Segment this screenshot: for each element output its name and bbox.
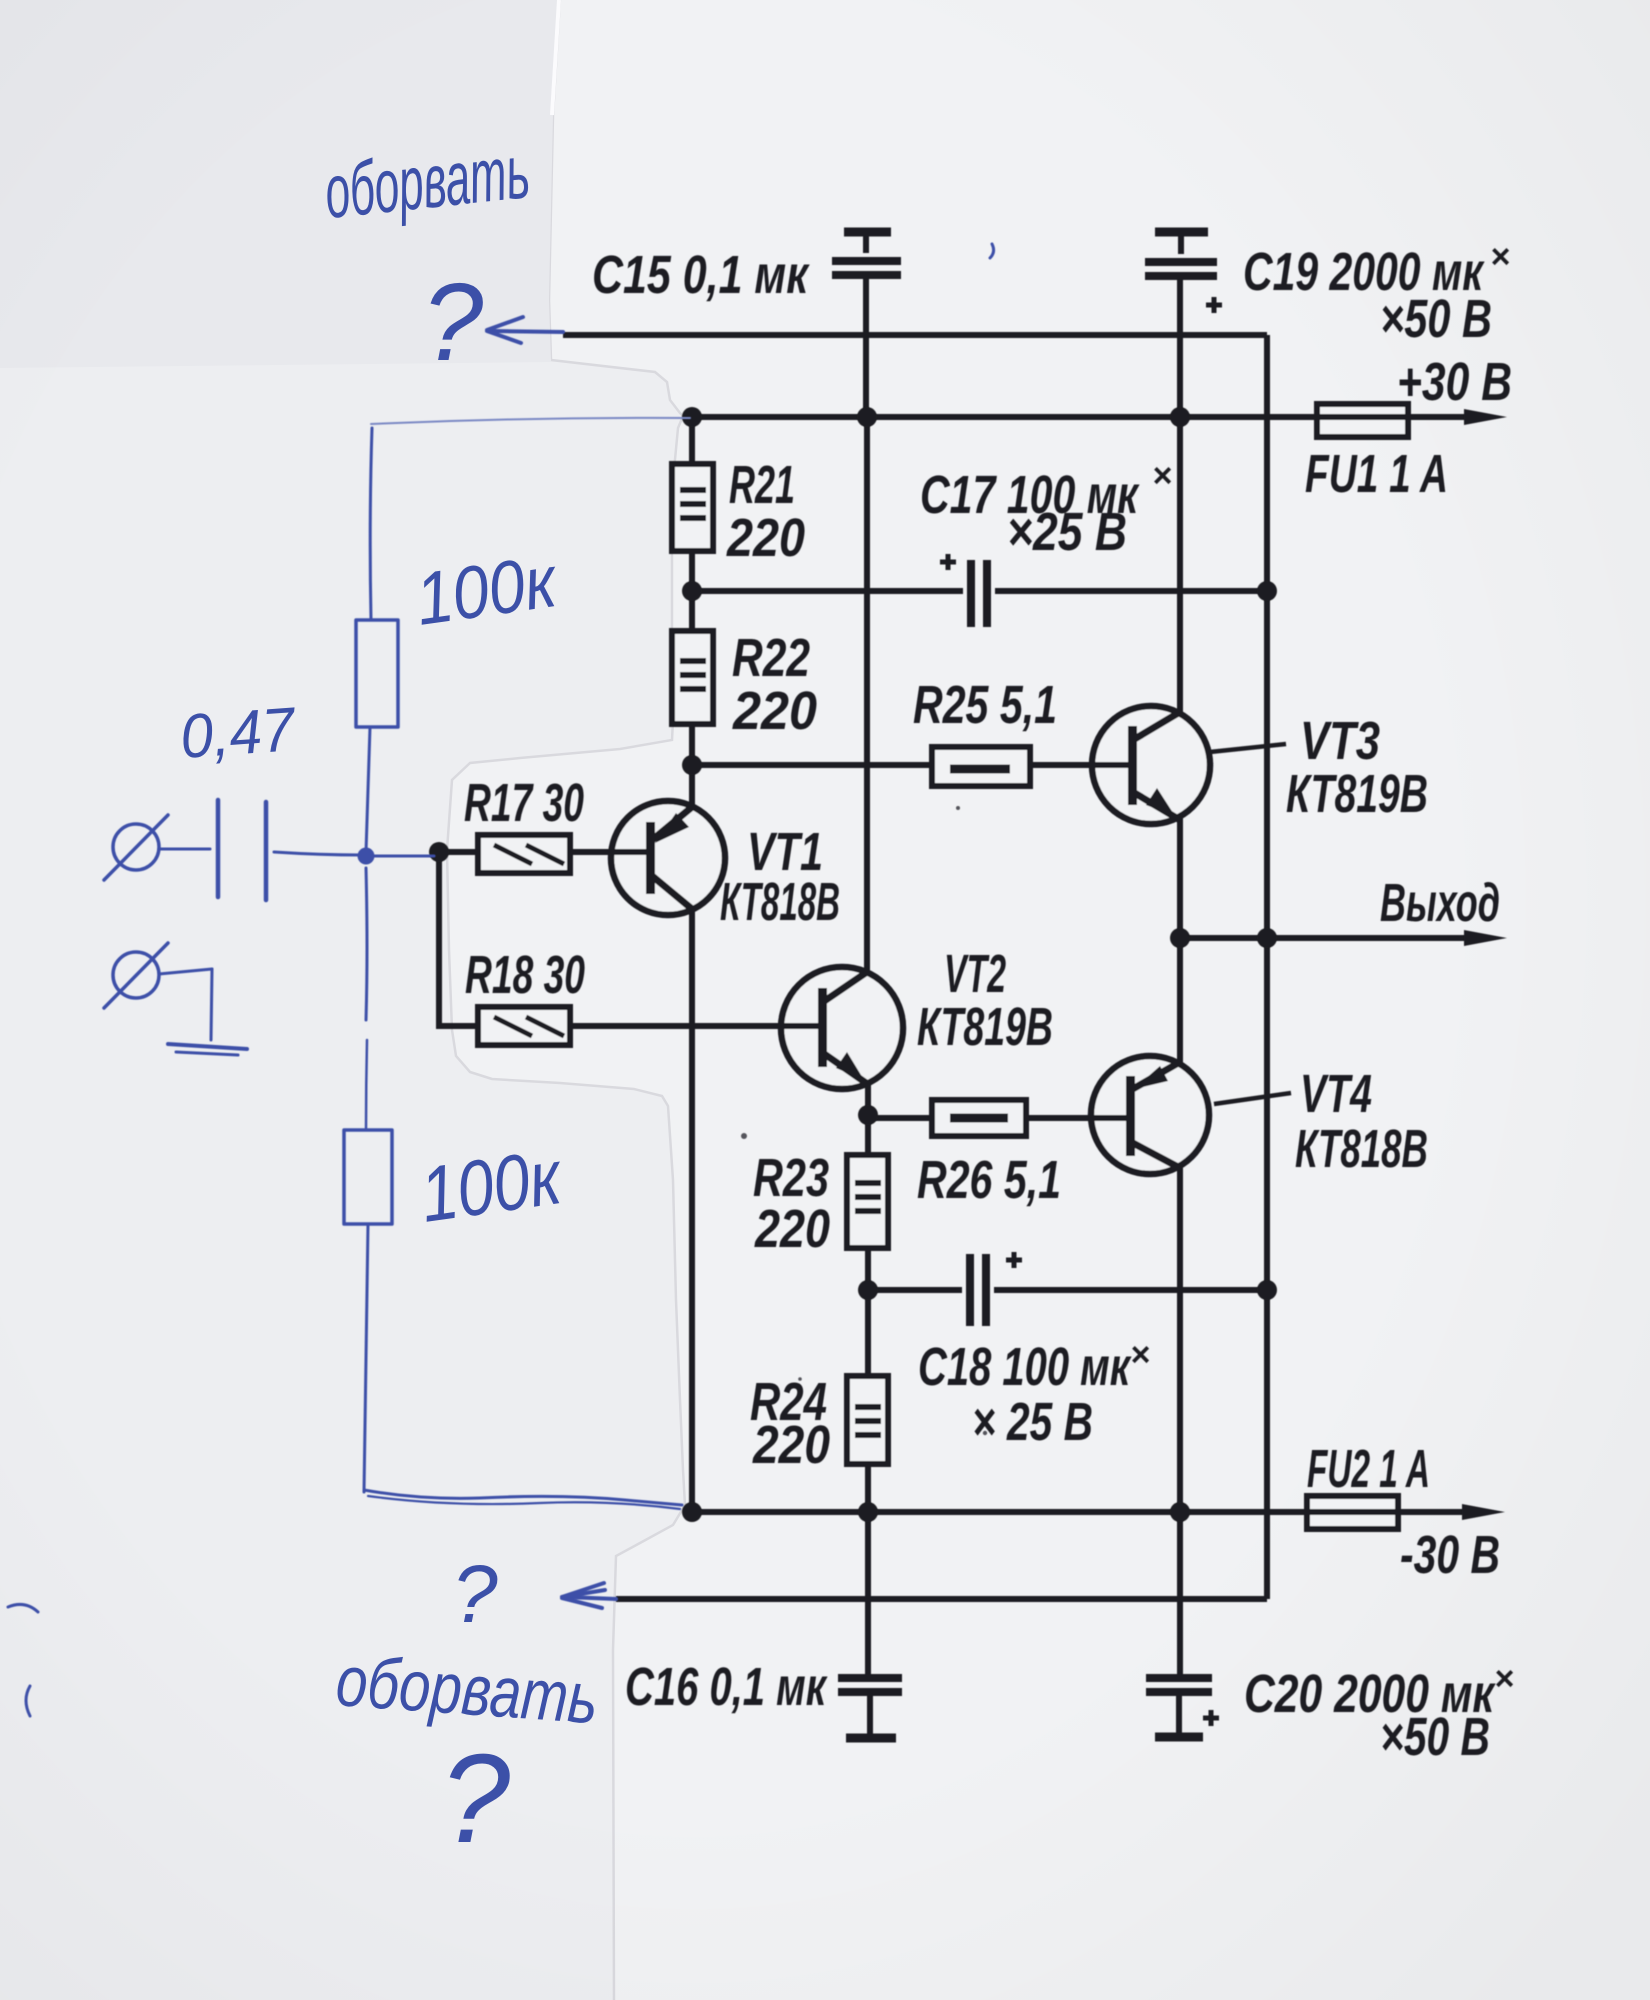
resistor R23	[847, 1155, 888, 1248]
wire: top bus horizontal (to be cut)	[563, 332, 1267, 338]
svg-text:220: 220	[752, 1415, 830, 1475]
svg-text:×25 В: ×25 В	[1007, 502, 1127, 562]
wire: R26 line	[868, 1115, 932, 1121]
node: VT2 emitter / R26 / R23	[858, 1105, 878, 1125]
wire: bottom bus horizontal (to be cut)	[616, 1596, 1267, 1602]
svg-text:Выход: Выход	[1380, 873, 1500, 933]
hw input terminal 2	[113, 952, 159, 998]
transistor VT2	[781, 967, 903, 1089]
paper specks	[741, 806, 987, 1435]
node: C15/rail	[857, 407, 877, 427]
hw wire resistor2 down	[364, 1224, 368, 1492]
svg-text:VT2: VT2	[944, 944, 1006, 1004]
node: C18 right on bus	[1257, 1280, 1277, 1300]
node: bottom rail / C20	[1170, 1502, 1190, 1522]
svg-text:С16 0,1 мк: С16 0,1 мк	[625, 1657, 828, 1717]
node: bottom rail / R24	[858, 1502, 878, 1522]
capacitor C19	[1145, 232, 1222, 417]
resistor R21	[672, 464, 713, 551]
wire: output line	[1180, 935, 1470, 941]
arrow +30V	[1464, 409, 1507, 425]
node: output at VT3/VT4	[1170, 928, 1190, 948]
resistor R17	[478, 835, 570, 873]
svg-text:×: ×	[1130, 1336, 1150, 1374]
wire: +30V rail	[692, 414, 1470, 420]
hw junction blob	[358, 848, 375, 865]
svg-text:С18 100 мк: С18 100 мк	[918, 1337, 1132, 1397]
wire: C17 bootstrap line	[692, 588, 963, 594]
svg-text:×50 В: ×50 В	[1380, 289, 1492, 349]
svg-text:220: 220	[726, 508, 805, 568]
pointer line VT4 label	[1214, 1093, 1291, 1104]
svg-text:220: 220	[754, 1199, 830, 1259]
svg-text:КТ818В: КТ818В	[720, 872, 840, 932]
svg-text:×50 В: ×50 В	[1380, 1707, 1490, 1767]
wire: bottom -30V rail	[692, 1509, 1468, 1515]
shadow along note paper edge	[447, 0, 685, 2000]
node: C19/rail	[1170, 407, 1190, 427]
svg-text:КТ819В: КТ819В	[917, 997, 1053, 1057]
arrowheads	[1462, 409, 1507, 1520]
hw wire junction down to 100k #2	[366, 868, 367, 1020]
resistor R18	[478, 1007, 570, 1045]
svg-text:VT4: VT4	[1300, 1064, 1372, 1124]
fuse FU1	[1317, 404, 1408, 437]
hw resistor 100k #1	[356, 620, 398, 727]
handwritten blue text	[178, 129, 600, 1869]
resistor R26	[932, 1100, 1026, 1136]
capacitor C17	[940, 554, 987, 627]
wire: left vertical V1 (R21/R22/VT1)	[689, 417, 695, 464]
hw ground	[168, 1044, 247, 1049]
svg-text:FU2 1 A: FU2 1 A	[1307, 1439, 1430, 1499]
hw stray marks bottom left	[8, 1604, 38, 1612]
wire: C18 bootstrap line	[868, 1287, 962, 1293]
transistor VT4	[1091, 1056, 1209, 1174]
arrow -30V	[1462, 1504, 1505, 1520]
svg-text:R17 30: R17 30	[464, 773, 584, 833]
arrow output	[1464, 930, 1507, 946]
wire: output bus vertical right	[1264, 335, 1270, 1599]
wire: R17 base line	[439, 849, 478, 855]
node: C17 right on bus	[1257, 581, 1277, 601]
hw wire resistor1 to junction	[366, 727, 370, 852]
wire: R25 line (driver node to VT3 base)	[692, 762, 932, 768]
node: bottom rail left	[682, 1502, 702, 1522]
hw tick near C15	[990, 244, 994, 258]
svg-text:?: ?	[440, 1728, 510, 1869]
wire: C19/VT3/VT4 vertical	[1177, 283, 1183, 712]
transistor VT3	[1092, 706, 1210, 824]
hw wire cap to junction	[274, 852, 362, 855]
hw squiggle wire to bottom rail	[364, 1490, 682, 1505]
fuse FU2	[1307, 1496, 1398, 1529]
capacitor C20	[1146, 1678, 1219, 1737]
wire: VT2 emitter down chain	[865, 1083, 871, 1155]
svg-text:× 25 В: × 25 В	[972, 1392, 1093, 1452]
wire: down-drop to R18	[439, 852, 478, 1026]
hw resistor 100k #2	[344, 1130, 392, 1224]
node: input junction	[429, 842, 449, 862]
svg-text:220: 220	[732, 681, 817, 741]
hw arrow top (points at top bus)	[492, 331, 563, 332]
note paper (handwritten overlay paper)	[0, 0, 685, 2000]
svg-text:R22: R22	[732, 628, 810, 688]
darker backing corner top-left	[0, 0, 560, 368]
svg-text:R21: R21	[729, 455, 795, 515]
wire: R18 to VT2 base	[570, 1023, 818, 1029]
capacitor C18	[970, 1252, 1022, 1326]
svg-text:-30 В: -30 В	[1400, 1525, 1500, 1585]
svg-text:+30 В: +30 В	[1397, 352, 1512, 412]
capacitor C15	[832, 232, 901, 417]
svg-text:0,47: 0,47	[178, 695, 299, 772]
node: C18 left	[858, 1280, 878, 1300]
svg-text:КТ819В: КТ819В	[1286, 764, 1428, 824]
capacitor C16	[838, 1678, 902, 1738]
hw input terminal 1	[113, 824, 159, 870]
svg-text:R25 5,1: R25 5,1	[913, 675, 1057, 735]
node: C17 left	[682, 581, 702, 601]
svg-text:FU1 1 A: FU1 1 A	[1305, 444, 1448, 504]
resistor R24	[847, 1376, 888, 1464]
wire: center +V vertical (C15 to VT2 collector)	[864, 417, 870, 972]
hw thin wire to +30V rail	[371, 418, 690, 424]
printed labels	[464, 238, 1514, 1767]
svg-text:?: ?	[422, 261, 483, 384]
hw input capacitor 0,47	[216, 800, 221, 897]
svg-text:R26 5,1: R26 5,1	[917, 1150, 1061, 1210]
svg-text:КТ818В: КТ818В	[1295, 1119, 1428, 1179]
svg-text:С15 0,1 мк: С15 0,1 мк	[592, 245, 810, 305]
bright curled edge of note paper at top	[552, 0, 559, 115]
hw arrow bottom (points at bottom bus)	[567, 1597, 616, 1599]
svg-text:×: ×	[1490, 238, 1510, 276]
svg-text:×: ×	[1494, 1660, 1514, 1698]
svg-text:R18 30: R18 30	[465, 945, 585, 1005]
node: rail left end	[682, 407, 702, 427]
hw wire down to 100k resistor 1	[370, 428, 372, 620]
svg-text:VT3: VT3	[1300, 711, 1380, 771]
svg-text:?: ?	[452, 1549, 498, 1640]
node: output on bus	[1257, 928, 1277, 948]
svg-text:×: ×	[1152, 457, 1172, 495]
pointer line VT3 label	[1210, 744, 1286, 752]
resistor R22	[672, 631, 713, 724]
transistor VT1	[611, 801, 725, 915]
node: driver node R22/VT1/R25	[682, 755, 702, 775]
resistor R25	[932, 747, 1030, 786]
